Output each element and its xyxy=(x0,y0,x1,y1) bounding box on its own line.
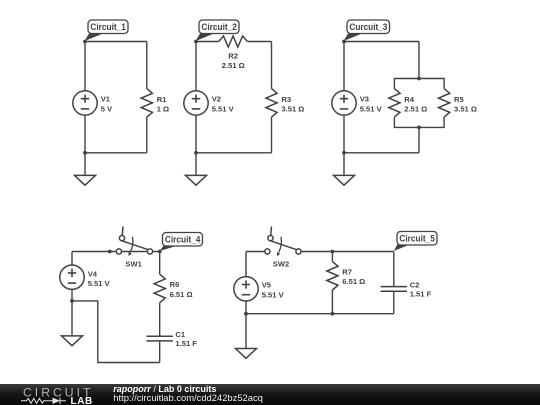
wire top rail circuit 1 xyxy=(85,41,147,43)
wire V4 bottom stub circuit 4 xyxy=(71,289,73,301)
wire bottom rail circuit 3 xyxy=(344,152,419,154)
wire right rail upper circuit 1 xyxy=(146,42,148,89)
svg-text:V5: V5 xyxy=(262,281,272,290)
wire parallel to bottom rail circuit 3 xyxy=(418,127,420,152)
svg-text:5.51 V: 5.51 V xyxy=(88,279,111,288)
wire bottom rail circuit 1 xyxy=(85,152,147,154)
wire top rail left circuit 2 xyxy=(196,41,219,43)
wire left rail lower circuit 1 xyxy=(84,115,86,153)
wire left rail lower circuit 3 xyxy=(343,115,345,153)
wire bottom rail circuit 2 xyxy=(196,152,272,154)
resistor R7 xyxy=(327,262,365,291)
switch SW1 xyxy=(116,227,152,269)
wire R6 to C1 circuit 4 xyxy=(159,303,161,337)
resistor R1 xyxy=(141,89,169,118)
node dot right of SW1 xyxy=(158,250,162,254)
svg-text:3.51 Ω: 3.51 Ω xyxy=(454,105,477,114)
ground circuit 5 xyxy=(236,314,257,359)
resistor R4 xyxy=(389,89,427,118)
wire V4 top stub circuit 4 xyxy=(71,252,73,266)
node dot below V4 xyxy=(70,299,74,303)
svg-text:C2: C2 xyxy=(410,280,420,289)
wire SW2 to C2 top rail circuit 5 xyxy=(301,251,394,253)
ground circuit 2 xyxy=(186,153,207,185)
svg-text:Curcuit_3: Curcuit_3 xyxy=(349,22,387,32)
svg-text:C1: C1 xyxy=(175,330,185,339)
wire C2 top stub circuit 5 xyxy=(393,252,395,287)
voltage source V4 xyxy=(60,265,111,289)
label Curcuit_3 callout xyxy=(344,20,390,41)
wire V5 bottom stub circuit 5 xyxy=(245,301,247,314)
footer bar xyxy=(0,384,540,405)
label Circuit_4 callout xyxy=(160,233,203,252)
node dot top-left circuit 1 xyxy=(83,40,87,44)
capacitor C1 xyxy=(147,330,198,348)
node dot below V5 xyxy=(244,312,248,316)
svg-text:5.51 V: 5.51 V xyxy=(360,104,383,113)
svg-text:V1: V1 xyxy=(101,95,111,104)
ground circuit 1 xyxy=(75,153,96,185)
voltage source V2 xyxy=(184,91,235,115)
svg-text:Circuit_2: Circuit_2 xyxy=(201,22,237,32)
svg-text:SW1: SW1 xyxy=(125,259,142,268)
wire R7 top stub circuit 5 xyxy=(331,252,333,262)
node dot before SW1 xyxy=(108,250,112,254)
svg-text:V3: V3 xyxy=(360,95,369,104)
svg-text:R5: R5 xyxy=(454,95,464,104)
wire bottom rail circuit 5 xyxy=(246,313,394,315)
svg-text:6.51 Ω: 6.51 Ω xyxy=(342,277,365,286)
capacitor C2 xyxy=(381,280,432,298)
node dot top-left circuit 3 xyxy=(342,40,346,44)
svg-text:R2: R2 xyxy=(228,52,238,61)
label Circuit_5 callout xyxy=(394,232,437,252)
resistor R5 xyxy=(439,89,477,118)
wire top rail circuit 3 xyxy=(344,41,419,43)
wire right rail lower circuit 2 xyxy=(271,117,273,153)
wire right drop circuit 3 xyxy=(418,42,420,79)
wire left rail lower circuit 2 xyxy=(195,115,197,153)
wire right rail upper circuit 2 xyxy=(271,42,273,89)
svg-text:3.51 Ω: 3.51 Ω xyxy=(281,105,304,114)
svg-text:Circuit_1: Circuit_1 xyxy=(90,22,126,32)
node dot bottom-left circuit 3 xyxy=(342,151,346,155)
svg-text:1 Ω: 1 Ω xyxy=(157,105,169,114)
svg-text:V2: V2 xyxy=(212,95,221,104)
wire top rail circuit 4 (passes under SW1) xyxy=(72,251,160,253)
node dot below R7 xyxy=(331,312,335,316)
node dot bottom-left circuit 2 xyxy=(194,151,198,155)
svg-text:5.51 V: 5.51 V xyxy=(262,290,285,299)
node dot parallel bottom circuit 3 xyxy=(417,126,421,130)
svg-text:5 V: 5 V xyxy=(101,104,113,113)
switch SW2 xyxy=(265,227,301,269)
wire parallel bottom circuit 3 xyxy=(394,117,444,127)
svg-text:2.51 Ω: 2.51 Ω xyxy=(404,105,427,114)
ground circuit 3 xyxy=(334,153,355,185)
wire bottom rail circuit 4 xyxy=(72,301,160,363)
svg-text:R4: R4 xyxy=(404,95,414,104)
svg-text:Circuit_4: Circuit_4 xyxy=(165,235,201,245)
wire left rail upper circuit 2 xyxy=(195,42,197,91)
wire R6 top stub circuit 4 xyxy=(159,252,161,275)
svg-text:R1: R1 xyxy=(157,95,167,104)
resistor R6 xyxy=(154,274,192,303)
node dot parallel top circuit 3 xyxy=(417,77,421,81)
resistor R3 xyxy=(266,89,304,118)
svg-text:R7: R7 xyxy=(342,267,352,276)
node dot top-left circuit 2 xyxy=(194,40,198,44)
label Circuit_1 callout xyxy=(85,20,128,41)
svg-text:http://circuitlab.com/cdd242bz: http://circuitlab.com/cdd242bz52acq xyxy=(113,392,263,403)
wire top rail right circuit 2 xyxy=(247,41,271,43)
svg-text:V4: V4 xyxy=(88,269,98,278)
svg-text:R3: R3 xyxy=(281,95,291,104)
node dot bottom-left circuit 1 xyxy=(83,151,87,155)
svg-text:1.51 F: 1.51 F xyxy=(175,339,197,348)
resistor R2 xyxy=(219,36,248,70)
wire left rail upper circuit 1 xyxy=(84,42,86,91)
wire C1 bottom stub circuit 4 xyxy=(159,341,161,363)
ground circuit 4 xyxy=(62,301,83,346)
svg-text:2.51 Ω: 2.51 Ω xyxy=(222,61,245,70)
wire C2 bottom stub circuit 5 xyxy=(393,291,395,314)
wire parallel top circuit 3 xyxy=(394,79,444,89)
voltage source V1 xyxy=(73,91,113,115)
voltage source V5 xyxy=(234,277,285,301)
voltage source V3 xyxy=(332,91,383,115)
wire R7 bottom stub circuit 5 xyxy=(331,290,333,314)
svg-text:5.51 V: 5.51 V xyxy=(212,104,235,113)
svg-text:1.51 F: 1.51 F xyxy=(410,289,432,298)
node dot above R7 xyxy=(331,250,335,254)
svg-text:Circuit_5: Circuit_5 xyxy=(399,234,435,244)
wire left rail upper circuit 3 xyxy=(343,42,345,91)
wire V5 to SW2 circuit 5 xyxy=(246,251,265,253)
svg-text:LAB: LAB xyxy=(71,396,93,405)
logo wire with resistor and diode xyxy=(21,398,66,404)
svg-text:SW2: SW2 xyxy=(273,259,289,268)
label Circuit_2 callout xyxy=(196,20,239,41)
svg-text:6.51 Ω: 6.51 Ω xyxy=(170,290,193,299)
wire right rail lower circuit 1 xyxy=(146,117,148,153)
svg-text:R6: R6 xyxy=(170,280,180,289)
wire V5 top stub circuit 5 xyxy=(245,252,247,277)
